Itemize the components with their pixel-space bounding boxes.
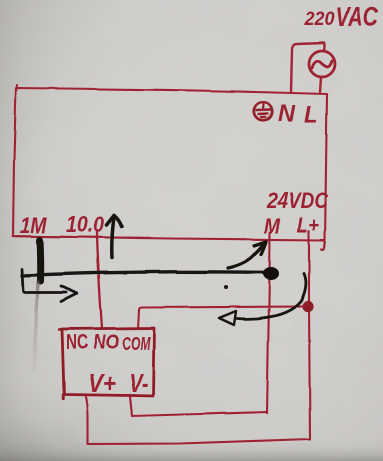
wire 10.0 terminal to relay NO xyxy=(97,230,102,328)
AC source G1 xyxy=(309,51,335,77)
svg-text:M: M xyxy=(264,215,280,238)
wire AC source bottom to box top (L side) xyxy=(320,77,321,92)
marker curved arrow to relay xyxy=(219,273,306,325)
power supply box U1 xyxy=(13,88,327,240)
marker elbow arrow xyxy=(22,269,77,302)
svg-text:24VDC: 24VDC xyxy=(266,188,329,213)
svg-text:1M: 1M xyxy=(20,213,48,238)
svg-text:V+: V+ xyxy=(88,368,116,398)
relay box corner overshoots xyxy=(59,328,64,331)
power supply box bottom edge overdraw xyxy=(14,236,150,238)
svg-text:V-: V- xyxy=(129,368,148,398)
marker wire 1M to M node (long black line) xyxy=(22,272,263,276)
power supply box corner overshoots xyxy=(321,239,325,249)
marker blob on M wire xyxy=(263,267,279,280)
junction dot COM/L+ xyxy=(302,301,313,312)
svg-text:COM: COM xyxy=(122,334,151,355)
svg-text:L: L xyxy=(304,101,318,128)
wire V+ right to L+ wire xyxy=(86,397,310,444)
svg-text:NO: NO xyxy=(93,331,119,354)
wire M terminal down to V- wire xyxy=(267,232,270,413)
marker smear below 1M lead xyxy=(34,282,38,372)
wire AC source top loop to box top (N side) xyxy=(291,43,325,92)
marker up arrow at 10.0 xyxy=(107,216,122,259)
svg-text:N: N xyxy=(278,100,296,127)
wire relay COM up and right to junction xyxy=(138,307,305,329)
marker: black lead over 1M terminal xyxy=(37,240,45,281)
ground terminal PE xyxy=(254,102,272,120)
svg-text:VAC: VAC xyxy=(336,2,378,32)
wire V- right and up to M wire xyxy=(130,397,267,416)
svg-text:220: 220 xyxy=(304,9,335,30)
svg-text:NC: NC xyxy=(66,331,88,354)
marker dot xyxy=(224,285,228,289)
relay module K1 xyxy=(62,328,154,396)
svg-text:10.0: 10.0 xyxy=(66,212,105,237)
wire L+ terminal down to V+ wire xyxy=(309,231,310,439)
marker curved arrow to M terminal xyxy=(228,242,267,269)
